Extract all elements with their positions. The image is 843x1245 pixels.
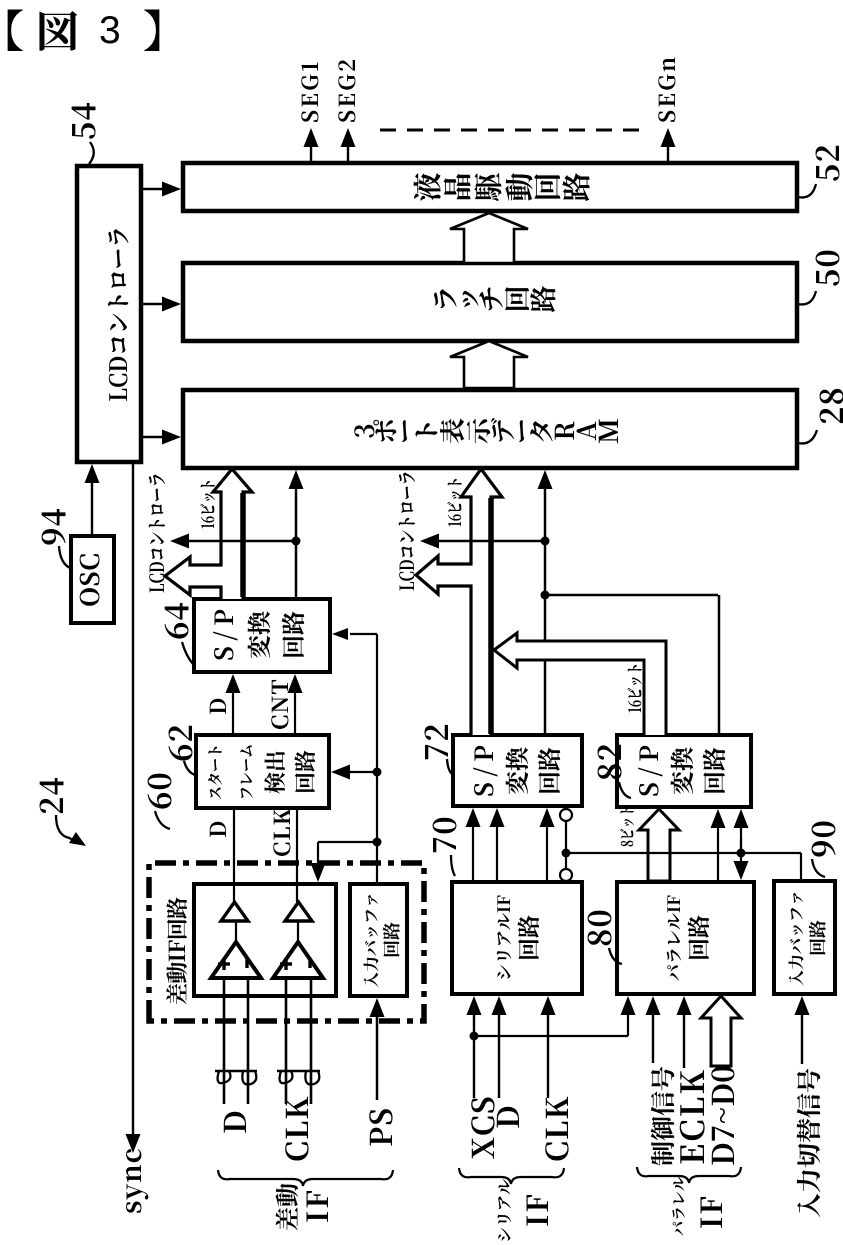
label CLK near U62 input: [273, 809, 290, 856]
wire OSC to U54: [91, 481, 93, 536]
wire D+ input: [223, 978, 226, 1104]
block U70 serial IF circuit (シリアルIF回路): [452, 882, 582, 994]
label 16ビット (U72 bus): [447, 479, 462, 526]
label ECLK: [680, 1070, 705, 1163]
block U80 parallel IF circuit (パラレルIF回路): [617, 882, 754, 994]
leader hook for 82: [619, 782, 631, 798]
open-circle line U70-U72: [565, 820, 567, 870]
dashed line between SEG2 and SEGn: [380, 129, 640, 132]
label D (U62-U64): [210, 699, 226, 714]
label CLK (serial): [545, 1097, 568, 1161]
leader hook for 80: [609, 948, 622, 964]
wire CLK input (serial): [547, 1013, 549, 1098]
bus arrow U50 to U52: [450, 213, 528, 263]
label 差動 IF: [276, 1184, 299, 1231]
label LCDコントローラ (U72 side): [399, 473, 416, 591]
label 82: [598, 745, 622, 780]
wire 制御信号 input: [652, 1013, 654, 1063]
label シリアル IF: [498, 1179, 512, 1241]
bus arrow U28 to U50: [450, 341, 528, 388]
buffer B1 (D) triangle: [221, 902, 248, 921]
label 16ビット (U64 bus): [200, 481, 215, 528]
label CLK input: [285, 1097, 308, 1161]
dash-dot box U60 differential IF circuit (差動IF回路): [149, 863, 424, 1021]
block U54 LCD controller (LCDコントローラ): [77, 166, 141, 462]
junction dot XCS: [470, 1032, 479, 1041]
leader arrow for 24: [56, 815, 70, 838]
label 62: [169, 726, 193, 761]
label 50: [816, 251, 840, 286]
wire SEG1 output: [310, 145, 312, 161]
label 3ポート表示データRAM of U28: [354, 425, 374, 438]
wire D from U62 to U64: [232, 691, 234, 735]
junction dot on CNT (U64): [292, 537, 301, 546]
twisted pair symbol (CLK): [277, 1070, 320, 1073]
label 差動IF回路 inside U60: [166, 897, 187, 1004]
wire CLK+ input: [285, 978, 288, 1104]
plus sign A2: [284, 958, 287, 970]
wire branch to amplifier box: [318, 841, 377, 843]
wire U54 to U52: [141, 188, 164, 190]
label D near U62 input: [210, 822, 226, 837]
label 72: [425, 725, 448, 759]
wire U70-U72 c: [546, 825, 548, 882]
block U62 start frame detection circuit (スタートフレーム検出回路): [196, 735, 329, 808]
wire CNT branch to LCD controller (U72 side): [437, 540, 545, 543]
label CNT (U62-U64): [271, 680, 288, 729]
leader hook for 72: [447, 759, 454, 775]
inner amplifier box of U60: [194, 884, 336, 996]
wire U70-U72 a: [472, 825, 474, 882]
wire SEGn output: [667, 145, 669, 161]
leader hook for 52: [798, 184, 816, 197]
wire CNT branch to U82: [545, 594, 718, 597]
block U72 S/P conversion circuit (S/P変換回路) upper: [453, 735, 582, 806]
label 入力切替信号: [797, 1069, 821, 1218]
label 液晶駆動回路 of U52: [414, 173, 441, 201]
thick lower wall of U72 bus: [488, 498, 494, 734]
leader hook for 60: [155, 811, 170, 829]
minus sign A1: [245, 958, 248, 968]
label 16ビット (U82 bus): [627, 665, 642, 712]
wire B1 out to U62 (D): [233, 808, 235, 902]
wire ECLK input: [683, 1013, 685, 1068]
block U82 S/P conversion circuit (S/P変換回路) lower: [617, 735, 751, 807]
wire PS input: [376, 1015, 379, 1100]
leader hook for 50: [798, 291, 816, 304]
label SEG2: [338, 60, 355, 122]
wire CNT from U72 to U28: [544, 487, 547, 735]
leader hook for 70: [451, 855, 455, 876]
junction dot on circle line: [562, 849, 571, 858]
leader hook for 94: [59, 546, 70, 568]
wire CNT from U64 to U28: [295, 487, 298, 599]
label XCS: [471, 1098, 494, 1159]
wire branch up into U62: [348, 771, 377, 773]
junction dot buffer net / amp branch: [373, 838, 382, 847]
label 70: [433, 818, 457, 852]
leader hook for 62: [184, 761, 195, 775]
label パラレル IF: [672, 1176, 685, 1236]
junction dot on switch net at bidir wire: [737, 849, 746, 858]
leader hook for 28: [798, 430, 817, 443]
block U90 input buffer circuit (入力バッファ回路): [774, 881, 835, 994]
label 60: [148, 774, 172, 809]
buffer B2 (CLK) triangle: [285, 902, 312, 921]
minus sign A2: [308, 958, 311, 968]
block U28 3-port display data RAM (3ポート表示データRAM): [183, 390, 797, 468]
label 90: [812, 822, 836, 857]
leader hook for 54: [89, 142, 94, 164]
wire U54 to U28: [141, 436, 164, 438]
16-bit hollow bus from U72 to U28 with branch arrow to LCD controller: [416, 469, 502, 735]
label D7〜D0: [711, 1066, 734, 1164]
16-bit hollow bus from U64 to U28 with branch arrow to LCD controller: [165, 469, 252, 599]
label D (serial): [497, 1107, 519, 1128]
plus sign A1: [222, 958, 225, 970]
input buffer box inside U60 (入力バッファ回路): [350, 884, 407, 996]
8-bit hollow bus U80 to U82: [639, 809, 679, 881]
leader hook for 64: [182, 642, 193, 664]
thick lower wall of U64 bus: [240, 493, 246, 597]
wire U54 to U50: [141, 303, 164, 305]
label 94: [42, 509, 66, 545]
label LCDコントローラ (U64 side): [149, 475, 166, 593]
label 64: [165, 603, 189, 639]
wire A2 to B2: [297, 921, 299, 942]
wire A1 to B1: [235, 921, 237, 942]
16-bit hollow bus from U82: [494, 633, 666, 735]
label 52: [816, 146, 840, 181]
wire buffer output to U64: [376, 634, 378, 884]
wire CLK- input: [310, 978, 313, 1104]
wire D- input: [247, 978, 250, 1104]
wire U80-U82 up arrow: [717, 826, 719, 882]
hollow bus D7-D0 into U80: [701, 996, 741, 1066]
amplifier A2 (CLK channel) triangle: [273, 942, 323, 978]
label PS: [369, 1109, 392, 1145]
amplifier A1 (D channel) triangle: [211, 942, 261, 978]
block OSC (U94): [71, 536, 114, 623]
wire CNT branch to LCD controller (U64 side): [187, 540, 296, 543]
wire XCS input: [473, 1013, 475, 1098]
wire SEG2 output: [347, 145, 349, 161]
wire B2 out to U62 (CLK): [296, 808, 298, 902]
label SEGn: [658, 58, 675, 122]
junction dot CNT/U82 branch: [541, 591, 550, 600]
label 80: [588, 911, 612, 946]
twisted pair symbol (D): [215, 1070, 257, 1073]
label SEG1: [301, 62, 318, 121]
label 54: [72, 103, 96, 139]
wire 入力切替信号 input: [801, 1013, 803, 1064]
wire sync from U54: [132, 462, 134, 1136]
wire CNT from U62 to U64: [294, 691, 296, 735]
brace 差動IF group: [218, 1170, 393, 1186]
label 8ビット: [620, 807, 634, 846]
junction dot buffer net / U62 branch: [373, 768, 382, 777]
block U64 S/P conversion circuit (S/P変換回路): [194, 599, 330, 672]
bidirectional wire U80-U82: [740, 826, 742, 851]
label sync: [126, 1149, 148, 1213]
label 24: [40, 778, 64, 813]
block U50 latch circuit (ラッチ回路): [183, 263, 797, 341]
wire U70-U72 b: [496, 825, 498, 882]
block U52 LCD drive circuit (液晶駆動回路): [183, 163, 797, 211]
wire from U90 top: [800, 853, 802, 881]
wire XCS branch to U80: [474, 1035, 628, 1037]
brace パラレルIF group: [637, 1167, 741, 1183]
label ラッチ回路 of U50: [434, 289, 457, 308]
label D input: [224, 1112, 246, 1133]
junction dot CNT/LCD branch (U72): [541, 537, 550, 546]
figure header 【図3】: [8, 10, 23, 51]
svg-text:3: 3: [99, 9, 121, 52]
brace シリアルIF group: [459, 1168, 564, 1184]
leader hook for 90: [812, 859, 825, 877]
label 28: [820, 389, 843, 423]
label 制御信号: [651, 1067, 675, 1166]
wire D input (serial): [498, 1013, 500, 1098]
